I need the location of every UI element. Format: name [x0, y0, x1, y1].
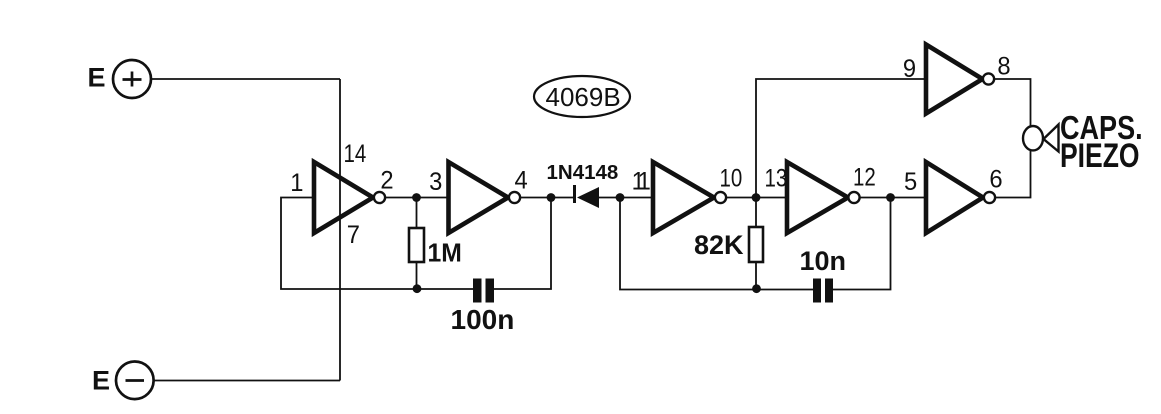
svg-text:13: 13: [765, 164, 788, 192]
inverter U1F pins 5-6: [926, 162, 983, 233]
inverter U1E pins 9-8: [926, 45, 983, 114]
wire E- to pin 7 rail: [154, 380, 340, 382]
svg-text:1: 1: [290, 169, 303, 197]
svg-text:100n: 100n: [451, 304, 515, 335]
bubble U1F output: [984, 192, 995, 203]
svg-text:3: 3: [429, 168, 442, 196]
svg-text:10n: 10n: [800, 246, 847, 276]
node output 4: [547, 193, 556, 202]
inverter U1B pins 3-4: [449, 162, 509, 233]
diode D1 1N4148: [575, 185, 600, 208]
node bottom of R2: [752, 284, 761, 293]
wire U1A output to U1B input: [386, 197, 449, 199]
svg-text:4: 4: [515, 167, 528, 195]
wire node 10 up to U1E input pin 9: [756, 79, 926, 198]
wire capacitor C2 to output 12 node: [833, 198, 891, 290]
node output 12: [886, 193, 895, 202]
svg-text:1: 1: [638, 168, 651, 196]
bubble U1C output: [715, 192, 726, 203]
wire U1E output to piezo top: [994, 79, 1031, 127]
svg-text:82K: 82K: [694, 230, 744, 260]
wire U1C output to U1D input: [727, 197, 788, 199]
wire capacitor C1 to output 4 node: [494, 198, 551, 290]
node junction pin 2/3: [412, 193, 421, 202]
bubble U1B output: [509, 192, 520, 203]
resistor R1 1M: [409, 228, 424, 262]
svg-text:6: 6: [989, 166, 1002, 194]
wire node 11 down to bottom rail 2: [620, 198, 813, 290]
svg-text:8: 8: [997, 53, 1010, 81]
svg-text:14: 14: [344, 139, 367, 167]
svg-text:7: 7: [347, 221, 360, 249]
wire U1B output to diode: [521, 197, 575, 199]
wire diode to U1C input: [599, 197, 653, 199]
inverter U1A pins 1-2: [314, 162, 373, 233]
svg-text:E: E: [92, 366, 110, 396]
wire resistor R1 to bottom rail: [416, 262, 418, 289]
svg-text:10: 10: [720, 164, 743, 192]
wire node to resistor R1: [416, 198, 418, 229]
wire node 10 to resistor R2: [755, 198, 757, 228]
resistor R2 82K: [749, 227, 763, 262]
svg-text:5: 5: [904, 168, 917, 196]
inverter U1C pins 11-10: [653, 162, 714, 233]
node output 10: [752, 193, 761, 202]
wire E+ to supply rail: [151, 78, 340, 80]
wire U1D output to U1F input: [860, 197, 926, 199]
node bottom of R1: [413, 284, 422, 293]
wire input pin 1 feedback: [281, 198, 473, 290]
piezo transducer: [1023, 125, 1059, 152]
wire U1F output to piezo bottom: [995, 150, 1031, 198]
terminal E-: [92, 362, 154, 400]
capacitor C2 10n: [813, 279, 833, 303]
svg-text:2: 2: [380, 167, 393, 195]
svg-text:9: 9: [903, 55, 916, 83]
svg-text:E: E: [88, 63, 106, 93]
bubble U1A output: [374, 192, 385, 203]
IC label 4069B ellipse: [534, 76, 630, 117]
terminal E+: [88, 60, 152, 98]
supply rail wire through U1A pins 14-7: [339, 79, 341, 381]
inverter U1D pins 13-12: [787, 162, 848, 233]
svg-text:PIEZO: PIEZO: [1060, 137, 1140, 175]
node input 11: [616, 193, 625, 202]
capacitor C1 100n: [473, 279, 494, 303]
svg-text:1M: 1M: [428, 239, 462, 268]
svg-text:1N4148: 1N4148: [547, 161, 619, 184]
svg-text:4069B: 4069B: [546, 82, 621, 112]
bubble U1E output: [983, 73, 994, 84]
wire resistor R2 to bottom rail 2: [755, 262, 757, 290]
svg-text:12: 12: [853, 163, 876, 191]
bubble U1D output: [848, 192, 859, 203]
